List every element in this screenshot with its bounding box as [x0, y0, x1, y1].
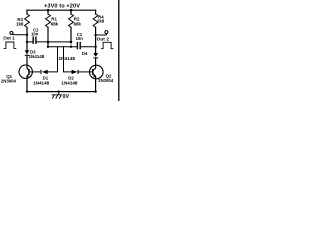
wire D1 cathode to Q1 base [30, 71, 41, 73]
wire ground rail [27, 91, 96, 93]
resistor R4 [93, 14, 98, 27]
diode D3 [25, 50, 30, 56]
diode D2 [72, 70, 79, 74]
svg-text:2N3904: 2N3904 [1, 79, 17, 84]
terminal Out2 circle [105, 31, 108, 34]
node R2-C2wire [70, 41, 73, 44]
wire top supply rail [27, 9, 96, 11]
svg-text:68k: 68k [74, 22, 82, 27]
wire left T down to D1 [48, 47, 58, 72]
border right [118, 0, 120, 101]
svg-text:1N4148: 1N4148 [33, 81, 50, 86]
wire R1 bottom [47, 27, 49, 47]
svg-text:+3V0 to +20V: +3V0 to +20V [44, 3, 80, 9]
svg-text:1k8: 1k8 [16, 21, 24, 26]
svg-text:1k8: 1k8 [97, 18, 105, 23]
svg-text:1N4148: 1N4148 [29, 54, 45, 59]
svg-text:1N4148: 1N4148 [61, 80, 78, 85]
wire R3 top stub [26, 10, 28, 14]
ground symbol [52, 92, 62, 99]
wire Q2 emitter to ground [95, 77, 97, 92]
svg-text:0V: 0V [63, 94, 70, 100]
waveform glyph out2 [101, 42, 114, 48]
node B C1 [94, 46, 96, 48]
wire D2 cathode to Q2 base [78, 71, 93, 73]
transistor Q1 [19, 65, 32, 78]
resistor R1 [46, 14, 51, 27]
wire Out2 branch [96, 34, 107, 35]
wire R1 top stub [47, 10, 49, 14]
waveform glyph out1 [4, 42, 17, 48]
wire C1 right to node B [81, 46, 96, 48]
terminal Out1 circle [10, 32, 13, 35]
wire Q1 emitter to ground [26, 77, 28, 92]
svg-text:Out 1: Out 1 [3, 36, 15, 41]
capacitor C2 [33, 37, 36, 43]
wire R2 bottom [70, 27, 72, 42]
wire C2 right to R2 [36, 41, 71, 43]
node B out2 [94, 34, 96, 36]
wire base row y47 left [48, 46, 77, 48]
diode D1 [41, 70, 48, 74]
node A C2 [26, 41, 28, 43]
svg-text:10n: 10n [31, 31, 39, 36]
svg-text:10n: 10n [76, 36, 84, 41]
capacitor C1 [77, 43, 80, 49]
node gnd center [58, 90, 60, 92]
wire R4 top stub [95, 10, 97, 14]
wire right T down to D2 [64, 47, 72, 72]
node rail-R2 [70, 9, 73, 12]
node gnd Q2 [94, 90, 96, 92]
transistor Q2 [90, 65, 104, 79]
wire R2 top stub [70, 10, 72, 14]
node dots [26, 9, 97, 93]
node A out1 [26, 34, 28, 36]
node R1-C2wire [47, 41, 50, 44]
node R1-y47 [47, 46, 49, 48]
svg-text:2N3904: 2N3904 [98, 78, 114, 83]
resistor R3 [25, 14, 30, 27]
wire R4 bottom [95, 27, 97, 53]
wire R2 thin stub [70, 42, 72, 47]
resistor R2 [69, 14, 74, 27]
svg-text:1N4148: 1N4148 [59, 56, 76, 61]
svg-text:Out 2: Out 2 [97, 36, 110, 41]
wire D4 to Q2 collector [95, 58, 97, 68]
wire C2 left [27, 41, 33, 43]
svg-text:D4: D4 [82, 51, 88, 56]
node gnd Q1 [26, 90, 28, 92]
node R2-y47 [70, 46, 72, 48]
wire D3 to Q1 collector [26, 55, 28, 67]
wire R3 bottom to node A [26, 27, 28, 50]
wire Out1 branch [12, 34, 27, 35]
node rail-R1 [47, 9, 50, 12]
svg-text:68k: 68k [51, 22, 59, 27]
diode D4 [93, 53, 98, 58]
